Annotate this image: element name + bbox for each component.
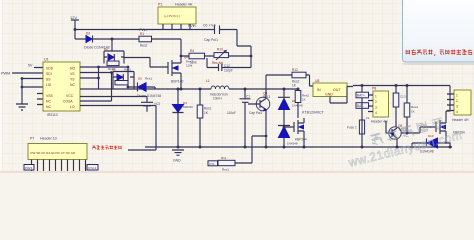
- capacitor C6: [203, 24, 220, 43]
- wire main rail y89: [155, 88, 298, 91]
- svg-text:(+) PV IN (-): (+) PV IN (-): [164, 14, 180, 18]
- svg-text:D9: D9: [138, 77, 142, 81]
- svg-text:KBP264: KBP264: [295, 138, 307, 142]
- resistor R12v: [295, 88, 309, 119]
- svg-text:SDI: SDI: [46, 72, 52, 76]
- svg-text:IN: IN: [317, 88, 321, 92]
- wire gate feed: [124, 58, 168, 68]
- diode D7: [278, 126, 298, 149]
- svg-text:Res2: Res2: [411, 105, 418, 109]
- svg-text:VS: VS: [70, 72, 75, 76]
- svg-text:P8: P8: [372, 87, 376, 91]
- svg-text:BAT-: BAT-: [357, 104, 364, 108]
- svg-text:12V: 12V: [70, 15, 77, 20]
- svg-text:4: 4: [375, 111, 377, 115]
- svg-text:D3: D3: [86, 32, 90, 36]
- transistor Q3 MOSFET KBP264: [283, 118, 307, 149]
- svg-text:NO: NO: [70, 67, 75, 71]
- wire loop from pin LO: [128, 106, 156, 151]
- connector P1 Header 4H: [158, 3, 196, 31]
- svg-text:10mH: 10mH: [213, 97, 222, 101]
- svg-text:C13: C13: [400, 95, 406, 99]
- svg-text:R11: R11: [221, 156, 227, 160]
- connector P8 Header 4H battery: [368, 87, 389, 124]
- svg-text:1: 1: [456, 94, 458, 98]
- svg-text:Header 4H: Header 4H: [175, 3, 193, 7]
- svg-text:VSS: VSS: [46, 94, 54, 98]
- svg-text:2: 2: [456, 99, 458, 103]
- ground left: [16, 104, 28, 110]
- resistor R14: [404, 86, 418, 134]
- svg-text:NC: NC: [46, 105, 51, 109]
- svg-text:Header 4H: Header 4H: [371, 120, 388, 124]
- node left j: [21, 77, 24, 80]
- svg-text:R1: R1: [140, 32, 144, 36]
- transistor Q1 MOSFET: [168, 55, 193, 89]
- svg-text:Cap Pol1: Cap Pol1: [204, 38, 218, 42]
- pair rails D5/R5: [113, 72, 134, 84]
- svg-text:BSP140: BSP140: [171, 80, 184, 84]
- net label BAT-: [356, 103, 369, 109]
- svg-text:U1: U1: [44, 58, 49, 62]
- wire 12V rail y30: [75, 29, 237, 31]
- net label BAT+: [356, 92, 369, 98]
- svg-text:R4: R4: [190, 49, 194, 53]
- svg-text:1K: 1K: [302, 98, 306, 102]
- svg-text:C12: C12: [224, 64, 230, 68]
- tooltip: [403, 0, 474, 65]
- svg-text:R10: R10: [217, 48, 223, 52]
- capacitor C3: [141, 97, 160, 112]
- SECTION: U1: [1, 58, 161, 151]
- svg-text:110k: 110k: [190, 61, 197, 65]
- wire vertical x128 step: [127, 66, 130, 89]
- SECTION: top-left 12V rail: [70, 3, 252, 90]
- zener D4 MZD30: [173, 88, 194, 148]
- svg-text:IR2110: IR2110: [47, 113, 58, 117]
- node j2: [111, 38, 114, 41]
- svg-text:LO: LO: [70, 105, 75, 109]
- resistor R1: [139, 32, 152, 48]
- svg-text:VDD: VDD: [46, 67, 54, 71]
- wire R1 to Q1 drain: [152, 39, 182, 59]
- resistor R12h: [292, 68, 313, 88]
- svg-text:GND: GND: [325, 93, 333, 97]
- svg-text:P1: P1: [158, 3, 162, 7]
- op-amp U1: [43, 58, 80, 118]
- capacitor C2: [227, 88, 262, 149]
- power 12V: [70, 15, 79, 29]
- watermark: [342, 113, 463, 170]
- svg-text:PVin-: PVin-: [188, 24, 198, 28]
- svg-text:4: 4: [456, 110, 458, 114]
- wire R4-R10 net: [180, 55, 253, 68]
- SECTION: header10: [24, 137, 121, 172]
- wire C6 corner down: [237, 30, 251, 57]
- svg-text:5V: 5V: [28, 64, 33, 68]
- capacitor C12: [207, 58, 251, 73]
- svg-text:Res1: Res1: [145, 77, 152, 81]
- wire right top rail: [353, 84, 450, 94]
- diode D6: [278, 88, 303, 126]
- svg-text:U8: U8: [315, 79, 319, 83]
- svg-text:PW SD CK DA GN 5V CT NC GN: PW SD CK DA GN 5V CT NC GN: [31, 151, 76, 155]
- resistor R3: [107, 61, 119, 71]
- wire U1 right pin ladder: [80, 67, 156, 106]
- svg-text:P7: P7: [30, 137, 34, 141]
- wire Q4 collector to R12h: [266, 75, 292, 98]
- svg-text:Header 10: Header 10: [40, 137, 57, 141]
- resistor R6: [197, 88, 211, 149]
- svg-text:VCC: VCC: [66, 94, 74, 98]
- svg-text:3: 3: [456, 105, 458, 109]
- svg-text:NC: NC: [46, 100, 51, 104]
- wire BAT+ drop: [356, 86, 362, 121]
- wire Q5 base node: [401, 127, 436, 135]
- ground GND: [172, 146, 184, 163]
- transistor Q6 MOSFET KBP264: [436, 111, 465, 143]
- diode D10 1N4148: [411, 134, 452, 154]
- resistor R4: [189, 49, 205, 65]
- wire Q4 emitter: [265, 110, 268, 149]
- svg-text:3: 3: [375, 106, 377, 110]
- svg-text:MZD30: MZD30: [183, 105, 193, 109]
- net label 5V: [28, 64, 33, 68]
- svg-text:CT2-1: CT2-1: [88, 166, 97, 170]
- wire vertical x111.5: [110, 71, 113, 101]
- diode D3 1N4148: [84, 32, 110, 50]
- wire U1 left pins: [12, 68, 43, 105]
- svg-text:BAT+: BAT+: [357, 94, 365, 98]
- net label CT2: [87, 165, 98, 171]
- svg-text:R12: R12: [292, 68, 298, 72]
- svg-text:OUT: OUT: [333, 88, 341, 92]
- node j1: [74, 28, 77, 31]
- svg-text:PWM: PWM: [1, 72, 10, 76]
- net label P3V1: [24, 165, 34, 171]
- resistor R5: [115, 81, 128, 85]
- pair rails D2/R3: [104, 39, 124, 64]
- SECTION: middle: [145, 68, 452, 172]
- big diode D9 1N4748: [128, 77, 161, 98]
- transistor Q5 9012: [386, 121, 406, 139]
- wire diode branch: [75, 30, 139, 40]
- artifact strip: [0, 171, 474, 173]
- svg-text:F1: F1: [366, 116, 370, 120]
- connector P7 Header 10: [28, 137, 87, 172]
- svg-text:D2: D2: [104, 47, 108, 51]
- wire pair2 to rail: [113, 84, 134, 90]
- wire Q5 emitter to bus: [396, 139, 399, 149]
- svg-text:CT1: CT1: [209, 162, 215, 166]
- resistor R11 sense: [208, 136, 266, 172]
- svg-text:1N4148: 1N4148: [292, 104, 303, 108]
- SECTION: right: [347, 84, 471, 154]
- svg-text:GND: GND: [173, 159, 181, 163]
- svg-text:NC: NC: [70, 83, 75, 87]
- svg-text:KTB12040CT: KTB12040CT: [302, 111, 325, 115]
- svg-text:PVin+: PVin+: [139, 28, 149, 32]
- annotation red text: [92, 146, 121, 150]
- wire vertical x98.5: [97, 66, 100, 89]
- svg-text:SS: SS: [46, 78, 51, 82]
- svg-text:9013: 9013: [263, 95, 270, 99]
- svg-text:1N4148: 1N4148: [287, 142, 298, 146]
- connector P9 Header 4H right: [447, 90, 471, 122]
- svg-text:L1: L1: [206, 79, 210, 83]
- transistor Q4 9013: [248, 92, 270, 111]
- svg-text:Res2: Res2: [140, 44, 148, 48]
- svg-text:COSA: COSA: [63, 100, 73, 104]
- svg-text:YS: YS: [70, 78, 75, 82]
- svg-text:Fuse 1: Fuse 1: [347, 126, 357, 130]
- fuse F1: [347, 116, 370, 149]
- svg-text:1: 1: [375, 95, 377, 99]
- svg-text:C1: C1: [246, 95, 250, 99]
- potentiometer R10: [212, 48, 229, 65]
- inductor L1: [206, 79, 229, 101]
- pin stubs left U1: [37, 94, 43, 105]
- net label PWM: [1, 72, 10, 76]
- svg-text:110pF: 110pF: [224, 69, 233, 73]
- svg-text:Diode D1N4748: Diode D1N4748: [137, 94, 161, 98]
- svg-text:2: 2: [375, 100, 377, 104]
- svg-text:Header 4H: Header 4H: [452, 118, 469, 122]
- svg-text:1K: 1K: [411, 110, 415, 114]
- regulator U8 KTB12040CT: [302, 79, 353, 115]
- svg-text:D5: D5: [112, 68, 116, 72]
- svg-text:Res1: Res1: [204, 107, 212, 111]
- svg-text:+C3: +C3: [154, 102, 160, 106]
- diode D2: [104, 47, 114, 60]
- svg-text:LSI: LSI: [46, 83, 51, 87]
- resistor R13: [393, 86, 406, 128]
- svg-text:Cap Pol1: Cap Pol1: [249, 111, 262, 115]
- bottom bus wire: [145, 146, 452, 148]
- wire Q6 drain up: [446, 94, 450, 112]
- svg-text:P3V1: P3V1: [25, 166, 33, 170]
- svg-text:110uF: 110uF: [227, 111, 236, 115]
- diode D5: [112, 68, 131, 81]
- svg-text:C6 +7uF: C6 +7uF: [203, 24, 216, 28]
